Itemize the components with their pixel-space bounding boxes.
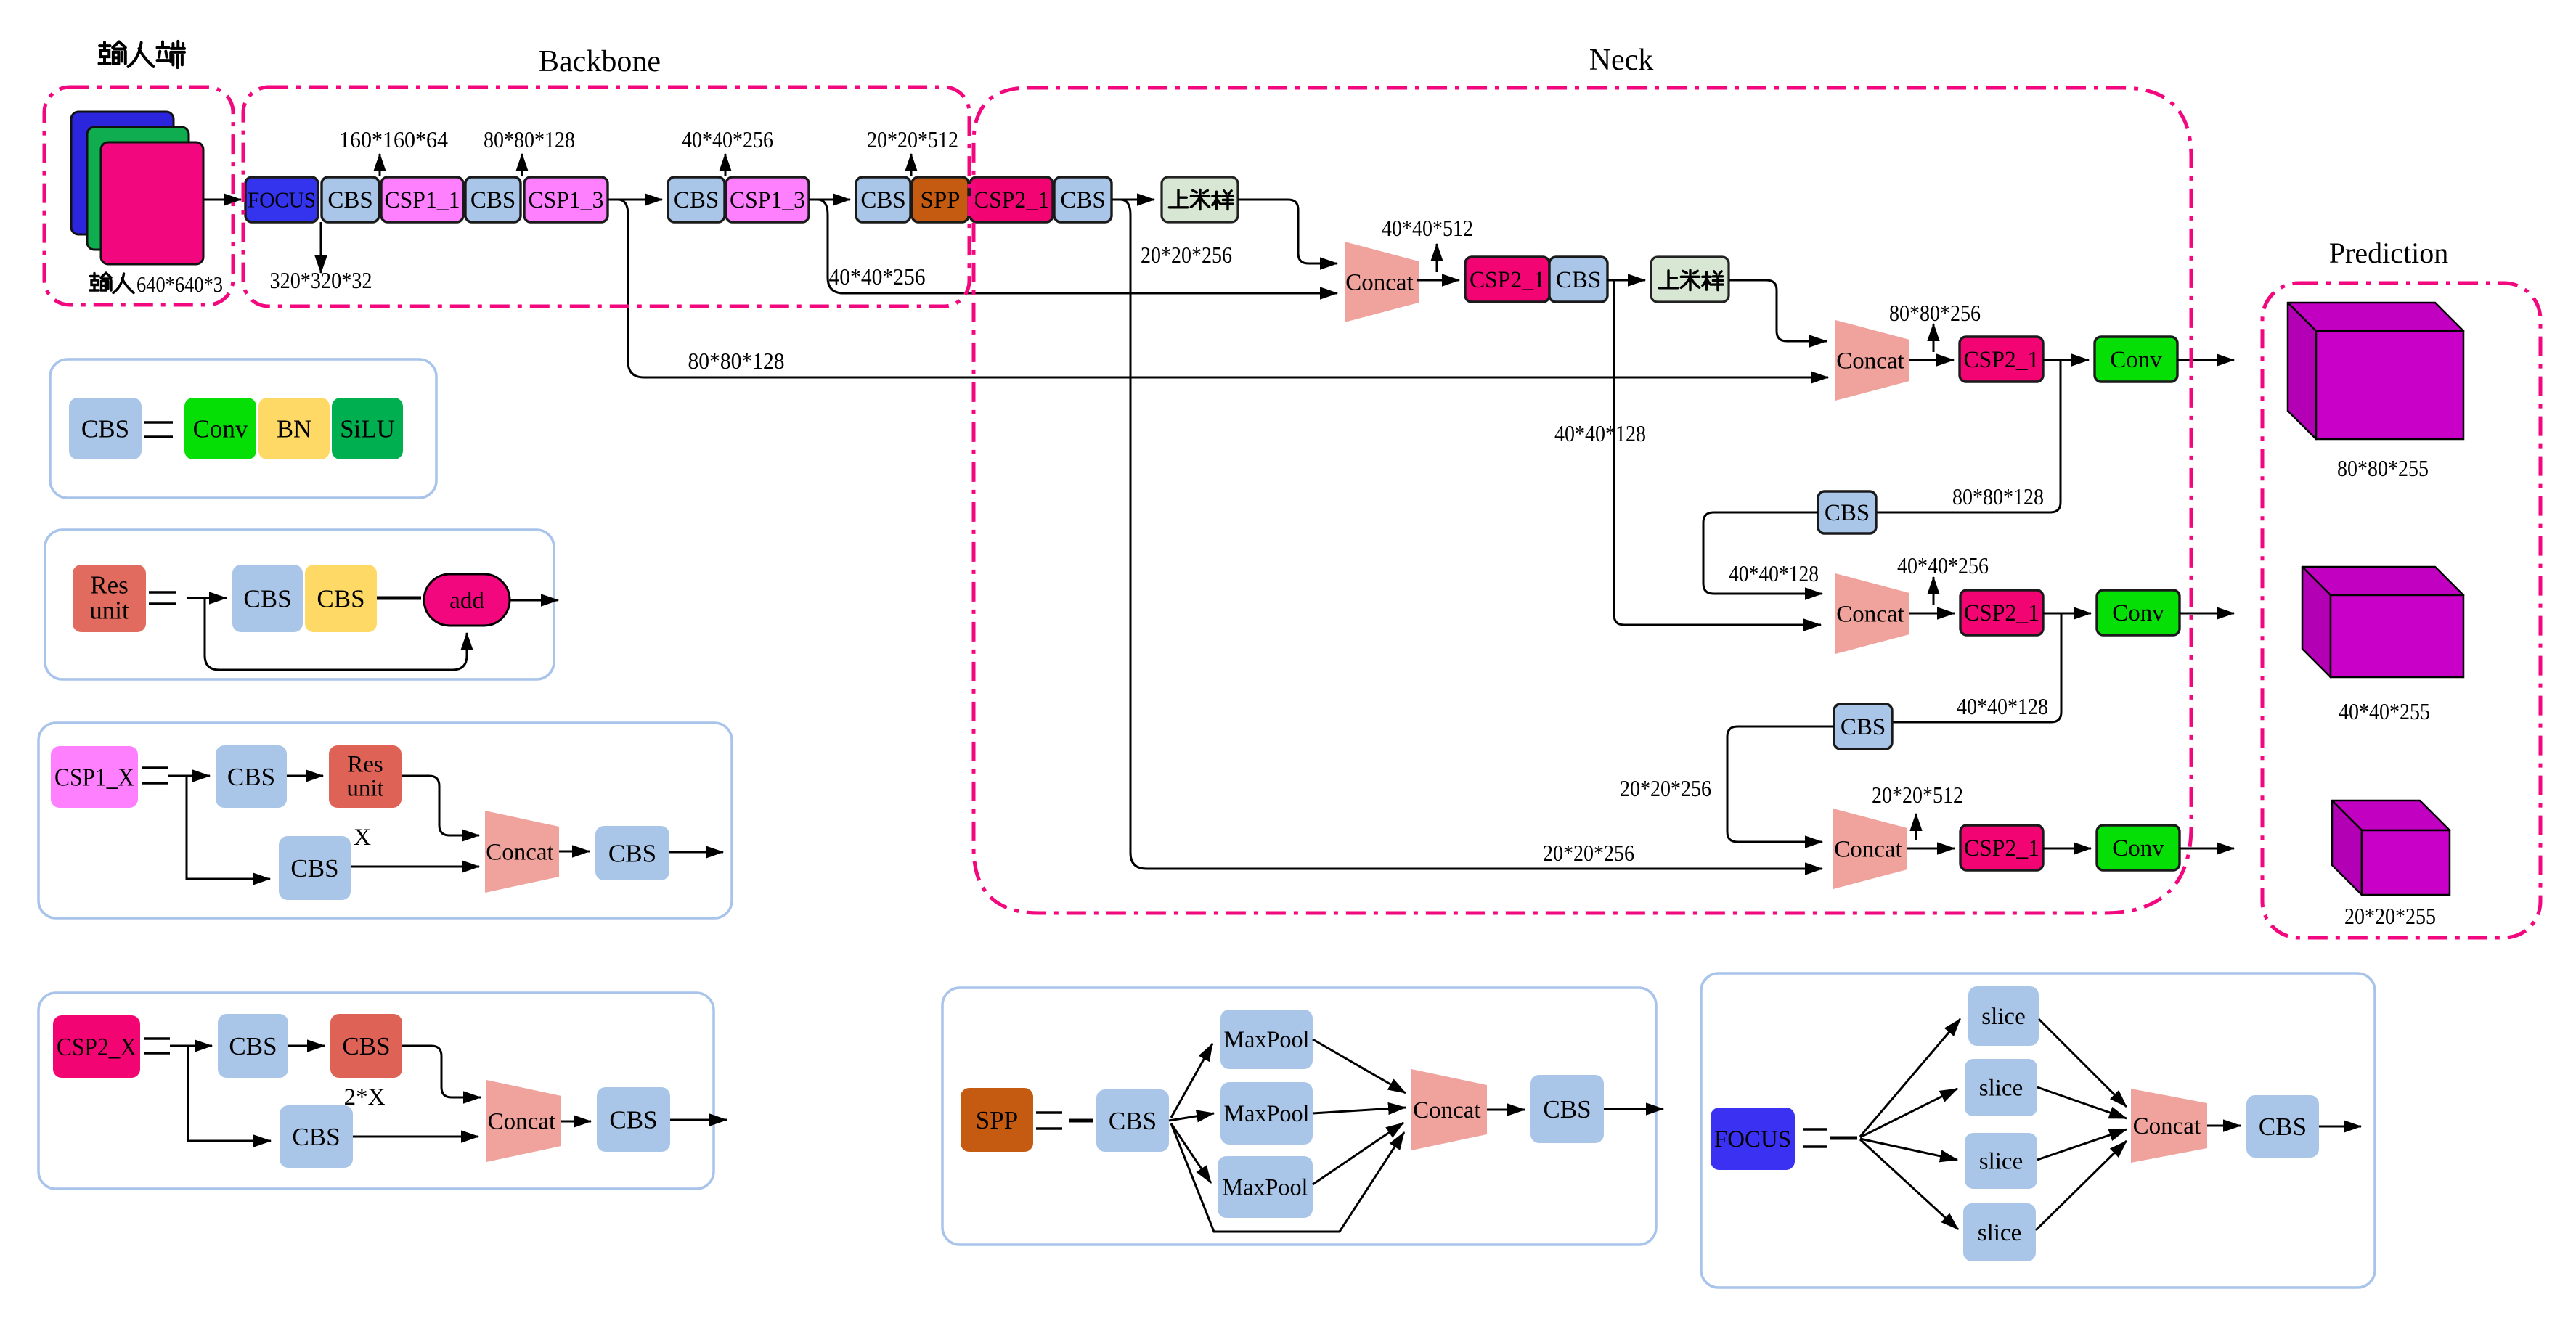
legend csp2 CBS-out (597, 1087, 670, 1152)
arrow up dim 160*160*64 (379, 154, 381, 176)
block CBS neck row-A (1054, 177, 1112, 222)
svg-text:X: X (354, 824, 371, 851)
svg-text:40*40*128: 40*40*128 (1729, 560, 1819, 586)
legend csp1 CBS-bottom (279, 836, 351, 900)
legend SPP (961, 1088, 1033, 1152)
wire rowC drop to CBS (80*80*128) (1876, 360, 2061, 512)
svg-text:20*20*512: 20*20*512 (1872, 782, 1963, 808)
concat legend spp (1411, 1069, 1487, 1150)
legend CSP1_X (51, 746, 138, 808)
wire skip connection (res unit) (205, 599, 467, 670)
arrow up dim 40*40*256 (725, 154, 727, 176)
cube output 40*40*255 (2302, 567, 2463, 724)
svg-text:CBS: CBS (227, 763, 275, 791)
svg-text:MaxPool: MaxPool (1224, 1101, 1310, 1127)
concat Concat2 (1835, 320, 1909, 401)
legend resunit CBS-1 (232, 565, 303, 632)
svg-text:slice: slice (1979, 1149, 2023, 1175)
arrow up 40*40*256 rowD (1933, 577, 1935, 605)
concat legend csp2 (486, 1080, 561, 1162)
dashed box Neck (974, 88, 2191, 913)
svg-text:Backbone: Backbone (539, 45, 661, 78)
block CSP2_1 row-C (1960, 337, 2043, 382)
wire CBS bottom -> Concat (csp2) (353, 1136, 478, 1138)
svg-text:unit: unit (346, 775, 383, 801)
wire FOCUS -> slice2 (1860, 1089, 1957, 1137)
legend slice-2 (1965, 1059, 2037, 1116)
wire Conv -> prediction P4 (2180, 613, 2234, 615)
legend spp CBS-out (1530, 1075, 1604, 1143)
svg-text:BN: BN (277, 414, 312, 443)
wire Concat2 -> CSP2_1 (1909, 359, 1954, 361)
svg-text:CSP2_1: CSP2_1 (1964, 347, 2039, 373)
concat Concat3 (1835, 573, 1909, 654)
legend csp1 CBS-top (216, 745, 287, 808)
equals sign legend2 (149, 592, 176, 604)
block Conv row-F (2097, 825, 2180, 870)
svg-text:40*40*256: 40*40*256 (682, 126, 773, 152)
wire Concat3 -> CSP2_1 rowD (1909, 613, 1955, 615)
svg-text:2*X: 2*X (344, 1084, 386, 1110)
block CSP2_1 row-F (1960, 825, 2043, 870)
svg-text:CBS: CBS (2259, 1113, 2307, 1141)
svg-text:slice: slice (1981, 1004, 2025, 1030)
block CBS backbone-3 (668, 177, 725, 222)
legend csp1 Res unit (329, 745, 402, 808)
svg-text:CSP1_X: CSP1_X (54, 763, 134, 791)
wire Conv -> prediction P3 (2177, 359, 2234, 361)
wire CSP1_3 -> CBS (2) (809, 199, 850, 201)
legend slice-3 (1965, 1133, 2037, 1189)
wire FOCUS -> slice3 (1860, 1139, 1957, 1160)
block Conv row-C (2095, 337, 2177, 382)
svg-text:40*40*256: 40*40*256 (1897, 552, 1989, 578)
svg-text:640*640*3: 640*640*3 (136, 271, 223, 297)
equals sign legend3 (142, 768, 168, 783)
svg-text:Conv: Conv (2112, 600, 2164, 626)
dashed box input section (44, 87, 233, 305)
node add (stadium) (424, 574, 510, 626)
block CBS backbone-1 (322, 177, 379, 222)
wire upsample-2 -> Concat2 (1729, 280, 1827, 341)
equals sign legend FOCUS (1803, 1129, 1827, 1147)
svg-text:20*20*256: 20*20*256 (1141, 242, 1232, 268)
arrow up dim 20*20*512 (910, 154, 913, 176)
svg-text:80*80*128: 80*80*128 (688, 348, 785, 374)
wire Concat1 -> CSP2_1 (1417, 279, 1459, 282)
arrow up 20*20*512 (1915, 814, 1917, 840)
wire into CBS top (csp2) (188, 1045, 212, 1047)
svg-text:40*40*255: 40*40*255 (2339, 698, 2430, 724)
block Conv row-D (2097, 590, 2180, 635)
svg-text:CBS: CBS (1109, 1107, 1157, 1135)
wire CSP1_3 -> CBS (608, 199, 662, 201)
wire FOCUS -> slice1 (1860, 1019, 1960, 1137)
legend FOCUS (1711, 1108, 1795, 1170)
wire CBS -> MaxPool1 (1171, 1044, 1212, 1118)
wire MaxPool3 -> Concat (1313, 1123, 1403, 1184)
svg-text:SPP: SPP (976, 1106, 1018, 1134)
block CBS backbone-2 (465, 177, 521, 222)
label 上采样 #1 (1169, 190, 1187, 208)
svg-text:CBS: CBS (608, 839, 656, 867)
block CBS row-B (1549, 257, 1607, 302)
wire FOCUS -> slice4 (1860, 1139, 1958, 1229)
wire slice4 -> Concat (2036, 1141, 2127, 1230)
legend box CSP2_X definition (38, 993, 714, 1189)
svg-text:CBS: CBS (860, 187, 905, 213)
block CSP2_1 neck row-A (970, 177, 1053, 222)
wire 40*40*256 (backbone->Concat1) (818, 200, 1337, 293)
arrow down 320*320*32 (320, 222, 322, 273)
concat Concat4 (1833, 809, 1907, 889)
wire 40*40*128 drop (CBS rowB -> Concat3) (1614, 280, 1821, 625)
concat Concat1 (1345, 242, 1419, 322)
legend box CBS definition (50, 359, 436, 498)
svg-text:Res: Res (347, 751, 383, 777)
svg-text:CSP2_1: CSP2_1 (1470, 267, 1545, 293)
wire CSP2_1 -> Conv rowD (2043, 613, 2091, 615)
svg-text:20*20*256: 20*20*256 (1620, 775, 1711, 801)
svg-text:slice: slice (1978, 1220, 2021, 1246)
equals sign legend1 (144, 422, 173, 437)
wire upsample-1 -> Concat1 (1238, 200, 1337, 263)
svg-text:SPP: SPP (920, 187, 960, 213)
block CSP1_1 backbone (381, 177, 463, 222)
svg-text:CSP1_3: CSP1_3 (730, 187, 805, 213)
svg-text:CBS: CBS (1060, 187, 1105, 213)
wire MaxPool2 -> Concat (1313, 1108, 1406, 1113)
wire input->FOCUS (203, 199, 241, 201)
arrow up 80*80*256 (1933, 324, 1935, 352)
svg-text:80*80*255: 80*80*255 (2337, 455, 2429, 481)
svg-text:CSP2_1: CSP2_1 (1964, 835, 2039, 861)
wire CBS -> upsample-1 (1112, 199, 1154, 201)
svg-text:Conv: Conv (193, 414, 248, 443)
svg-text:CBS: CBS (342, 1032, 390, 1060)
svg-text:CBS: CBS (327, 187, 372, 213)
svg-text:CBS: CBS (317, 584, 364, 613)
svg-text:CBS: CBS (292, 1123, 340, 1151)
legend slice-4 (1963, 1203, 2036, 1261)
legend SiLU (332, 398, 403, 459)
input image pink (101, 142, 203, 264)
svg-text:Concat: Concat (1413, 1097, 1480, 1123)
svg-text:160*160*64: 160*160*64 (339, 126, 448, 152)
svg-text:40*40*512: 40*40*512 (1382, 215, 1473, 241)
svg-text:Neck: Neck (1589, 44, 1654, 77)
legend box SPP definition (942, 988, 1656, 1245)
block CSP1_3 backbone-2 (726, 177, 809, 222)
legend csp1 CBS-out (595, 826, 669, 880)
wire SPP = -> CBS (thick) (1069, 1119, 1093, 1123)
legend BN (258, 398, 330, 459)
svg-text:40*40*256: 40*40*256 (829, 263, 926, 290)
svg-text:CSP1_1: CSP1_1 (385, 187, 460, 213)
wire CBS -> CBS red (csp2) (288, 1045, 325, 1047)
legend box Res unit definition (45, 530, 554, 679)
svg-text:40*40*128: 40*40*128 (1957, 693, 2048, 719)
svg-text:Concat: Concat (1836, 602, 1904, 628)
svg-text:FOCUS: FOCUS (1714, 1126, 1791, 1153)
wire add output (510, 599, 558, 602)
wire SPP bypass -> Concat (1171, 1123, 1404, 1232)
svg-text:Concat: Concat (486, 840, 553, 866)
block upsample-2 上采样 (1651, 257, 1729, 302)
wire FOCUS output (2319, 1126, 2361, 1128)
wire CBS -> MaxPool3 (1171, 1123, 1211, 1183)
legend csp2 CBS-red (330, 1014, 402, 1078)
concat legend csp1 (485, 811, 559, 893)
wire Conv -> prediction P5 (2180, 848, 2234, 850)
svg-text:CBS: CBS (1556, 267, 1601, 293)
wire CBS -> Res unit (csp1) (287, 775, 323, 777)
block SPP backbone (912, 177, 969, 222)
wire SPP output (1604, 1108, 1663, 1110)
wire Concat -> CBS (csp2) (561, 1121, 591, 1123)
svg-text:CSP2_1: CSP2_1 (1964, 600, 2039, 626)
svg-text:CSP1_3: CSP1_3 (529, 187, 604, 213)
svg-text:add: add (449, 588, 484, 614)
wire slice1 -> Concat (2039, 1019, 2127, 1107)
svg-text:20*20*255: 20*20*255 (2344, 903, 2436, 929)
block upsample-1 上采样 (1162, 177, 1238, 222)
input image blue (71, 112, 174, 234)
svg-text:Conv: Conv (2110, 347, 2162, 373)
block CSP2_1 row-D (1960, 590, 2043, 635)
wire branch CSP1_X (168, 776, 270, 879)
svg-text:Prediction: Prediction (2329, 237, 2448, 269)
legend csp2 CBS-top (218, 1014, 288, 1078)
label 输入640*640*3 (chars) (90, 273, 111, 290)
svg-text:80*80*128: 80*80*128 (1952, 483, 2044, 509)
legend MaxPool-2 (1220, 1082, 1313, 1145)
svg-text:40*40*128: 40*40*128 (1554, 420, 1646, 446)
legend CSP2_X (53, 1015, 140, 1078)
wire slice3 -> Concat (2037, 1129, 2127, 1160)
wire 20*20*256 drop (CBS->Concat4) (1120, 200, 1822, 869)
equals sign legend4 (144, 1039, 170, 1053)
dashed box Prediction (2262, 283, 2540, 938)
legend Res unit (73, 565, 146, 632)
wire CBS red -> Concat (csp2) (402, 1046, 481, 1097)
svg-text:CSP2_1: CSP2_1 (974, 187, 1049, 213)
legend Conv (184, 398, 256, 459)
legend box FOCUS definition (1701, 973, 2375, 1288)
block CBS downsample-2 (1834, 704, 1892, 749)
svg-text:CBS: CBS (674, 187, 719, 213)
cube output 20*20*255 (2332, 801, 2450, 929)
svg-text:CBS: CBS (229, 1032, 277, 1060)
wire Concat -> CBS (csp1) (559, 851, 590, 853)
svg-text:slice: slice (1979, 1076, 2023, 1102)
dashed box Backbone (243, 87, 969, 306)
wire slice2 -> Concat (2037, 1087, 2127, 1118)
input image green (87, 127, 189, 250)
svg-text:FOCUS: FOCUS (248, 187, 316, 213)
svg-text:CBS: CBS (243, 584, 291, 613)
svg-text:CBS: CBS (1543, 1095, 1591, 1123)
title 输入端 (99, 42, 126, 64)
svg-text:20*20*512: 20*20*512 (867, 126, 958, 152)
svg-text:Concat: Concat (2133, 1113, 2201, 1139)
legend MaxPool-3 (1218, 1156, 1313, 1218)
svg-text:Concat: Concat (488, 1109, 555, 1135)
legend box CSP1_X definition (38, 723, 732, 918)
svg-text:SiLU: SiLU (340, 414, 395, 443)
svg-text:Res: Res (90, 571, 129, 599)
block CSP1_3 backbone-1 (524, 177, 608, 222)
svg-text:CBS: CBS (609, 1105, 657, 1134)
wire Concat -> CBS (focus) (2207, 1125, 2241, 1127)
block FOCUS backbone (245, 177, 318, 222)
arrow up 40*40*512 (1436, 244, 1438, 272)
legend spp CBS-in (1096, 1089, 1169, 1152)
wire FOCUS = (thick) (1830, 1137, 1857, 1140)
svg-text:Concat: Concat (1834, 837, 1902, 863)
legend resunit CBS-2 (305, 565, 377, 632)
concat legend focus (2131, 1089, 2207, 1163)
wire CBS ds1 -> Concat3 (1703, 512, 1822, 594)
wire Res unit -> Concat (csp1) (402, 776, 479, 835)
svg-text:CBS: CBS (81, 414, 129, 443)
label 上采样 #2 (1659, 271, 1677, 288)
svg-text:80*80*256: 80*80*256 (1889, 300, 1981, 326)
cube output 80*80*255 (2288, 303, 2463, 481)
svg-text:unit: unit (89, 597, 129, 625)
svg-text:Concat: Concat (1345, 270, 1413, 296)
wire Concat -> CBS (spp) (1487, 1109, 1525, 1111)
svg-text:MaxPool: MaxPool (1224, 1027, 1310, 1053)
legend CBS (69, 398, 142, 459)
wire CBS -> MaxPool2 (1169, 1113, 1214, 1121)
wire CBS bottom -> Concat (csp1) (351, 866, 479, 868)
arrow up dim 80*80*128 (521, 154, 523, 176)
wire CSP2_1 -> Conv rowC (2043, 359, 2089, 361)
block CBS backbone-4 (856, 177, 910, 222)
wire CBS ds2 -> Concat4 (1727, 726, 1834, 842)
svg-text:320*320*32: 320*320*32 (270, 267, 372, 293)
svg-text:CSP2_X: CSP2_X (57, 1033, 136, 1061)
wire CSP1_X output (669, 851, 723, 854)
svg-text:80*80*128: 80*80*128 (484, 126, 575, 152)
svg-text:CBS: CBS (290, 854, 338, 883)
legend csp2 CBS-bottom (280, 1105, 353, 1168)
wire rowD drop to CBS (40*40*128) (1892, 613, 2061, 722)
wire Concat4 -> CSP2_1 rowF (1907, 848, 1955, 850)
wire CSP2_X output (670, 1119, 727, 1121)
svg-text:MaxPool: MaxPool (1223, 1175, 1308, 1201)
legend slice-1 (1968, 986, 2039, 1046)
legend focus CBS-out (2246, 1095, 2319, 1158)
equals sign legend SPP (1036, 1113, 1062, 1129)
wire branch CSP2_X (170, 1046, 271, 1141)
block CBS downsample-1 (1818, 491, 1876, 533)
svg-text:CBS: CBS (1841, 714, 1886, 740)
svg-text:CBS: CBS (1825, 500, 1870, 526)
svg-text:CBS: CBS (470, 187, 515, 213)
svg-text:20*20*256: 20*20*256 (1543, 840, 1634, 866)
wire into CBS top (csp1) (187, 775, 210, 777)
block CSP2_1 row-B (1465, 257, 1549, 302)
wire into CBS (res unit) (187, 597, 227, 599)
wire 80*80*128 long (backbone->Concat2) (618, 200, 1828, 377)
legend MaxPool-1 (1220, 1010, 1313, 1069)
wire CBS -> upsample-2 (1607, 279, 1645, 282)
wire MaxPool1 -> Concat (1313, 1039, 1406, 1093)
wire CSP2_1 -> Conv rowF (2043, 848, 2091, 850)
svg-text:Concat: Concat (1836, 348, 1904, 374)
wire CBS -> add (thick) (377, 597, 421, 600)
svg-text:Conv: Conv (2112, 835, 2164, 861)
